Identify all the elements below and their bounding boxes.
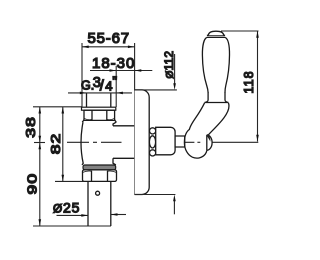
svg-text:4: 4: [105, 79, 112, 94]
55-67/18-30 right extension + plate left edge: [134, 43, 136, 195]
O25 right tail: [111, 214, 126, 216]
spindle neck: [175, 136, 185, 147]
dimension 18-30 line: [90, 70, 152, 72]
arrow 55-67 left: [82, 46, 89, 49]
svg-text:/: /: [100, 79, 105, 95]
G3/4 inlet pipe stub: [87, 94, 111, 108]
118 dimension line: [257, 31, 259, 142]
arrow G3/4 left (outside): [80, 92, 87, 95]
valve body: [81, 122, 83, 165]
handle grip egg body: [202, 37, 229, 92]
arrow O25 left (outside): [81, 214, 88, 217]
svg-text:118: 118: [242, 70, 256, 93]
svg-text:90: 90: [25, 173, 39, 195]
55-67 left extension: [81, 43, 83, 107]
spindle housing: [156, 127, 175, 155]
arrow 18-30 left (outside): [110, 69, 117, 72]
valve body right edge: [113, 122, 116, 165]
centerline tail to 118 dim: [211, 141, 258, 143]
extension line top of valve: [33, 106, 82, 108]
bottom flange washer (gray): [83, 165, 116, 170]
dimension G.3/4 line: [68, 92, 132, 94]
dimension 82 vertical line: [62, 107, 64, 182]
handle grip bell: [205, 102, 229, 104]
arrow 118 top: [256, 31, 259, 38]
grip top cap dome: [208, 31, 223, 35]
arrow 118 bottom: [256, 135, 259, 142]
centerline dot in ball: [197, 141, 200, 143]
arrow 55-67 right: [128, 46, 135, 49]
handle end cap: [207, 135, 212, 150]
top hex chamfer arcs: [84, 118, 115, 119]
arrow G3/4 right (outside): [116, 92, 123, 95]
wall plate: [135, 90, 150, 195]
arrow 82 top: [62, 107, 65, 114]
arrow 90 bottom: [39, 219, 42, 226]
spindle boss to wall plate: [113, 126, 135, 159]
svg-text:18-30: 18-30: [92, 55, 135, 72]
18-30 left extension: [115, 66, 117, 107]
svg-text:": ": [112, 74, 117, 89]
lever shadow wedge: [207, 134, 210, 142]
arrow 82 bottom: [62, 175, 65, 182]
handle grip stem: [208, 92, 225, 100]
O112 dim line top with arrow: [174, 54, 176, 84]
handle ball hub: [184, 129, 206, 158]
arrow O25 right (outside): [111, 213, 118, 216]
svg-text:38: 38: [24, 116, 38, 138]
svg-text:82: 82: [49, 133, 63, 155]
svg-text:Ø25: Ø25: [53, 199, 80, 215]
outlet pipe: [88, 181, 111, 226]
bottom hex nut: [83, 170, 117, 182]
bottom hex chamfer arcs: [83, 171, 117, 172]
svg-text:55-67: 55-67: [88, 30, 130, 47]
svg-text:Ø112: Ø112: [162, 51, 176, 79]
O25 leader line: [57, 214, 89, 216]
extension tick at 38/90 junction: [34, 142, 45, 144]
O112 dim line bottom with arrow: [173, 200, 175, 214]
dimension 55-67 line: [82, 46, 135, 48]
handle lever arm: [189, 103, 229, 136]
arrow 18-30 right (outside): [135, 69, 142, 72]
arrow 38 top: [39, 107, 42, 114]
top hex nut: [82, 110, 116, 122]
spindle bead bottom: [150, 150, 156, 156]
extension line pipe bottom: [33, 225, 111, 227]
top hex facets: [92, 110, 107, 120]
118 top extension line: [221, 30, 259, 32]
plate bottom extension line: [135, 194, 176, 196]
grip collar band: [207, 35, 225, 37]
centerline of spindle: [67, 141, 122, 143]
top flange washer: [82, 107, 116, 110]
bottom hex facets: [92, 171, 108, 182]
centerline (right of plate): [144, 141, 195, 143]
dimension 38-90 vertical line: [39, 107, 41, 226]
spindle bead middle: [149, 136, 155, 148]
spindle bead top: [150, 128, 156, 134]
handle grip bell flares: [205, 100, 229, 102]
arrow 90 top: [39, 143, 42, 150]
extension line bottom hex nut: [55, 180, 84, 182]
plate top extension line: [135, 89, 177, 91]
arrow 38 bottom: [39, 136, 42, 143]
pipe hole: [96, 191, 100, 195]
